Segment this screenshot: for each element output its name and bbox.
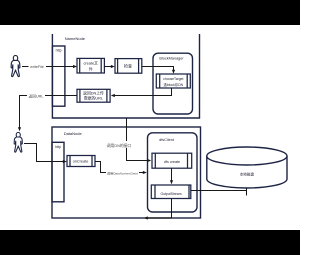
svg-text:NameNode: NameNode [65,36,86,41]
svg-text:调用DN的接口: 调用DN的接口 [107,143,132,148]
svg-text:数据的URL: 数据的URL [84,95,103,100]
svg-text:DataNode: DataNode [64,131,83,136]
svg-text:BlockManager: BlockManager [159,57,184,61]
svg-text:create文: create文 [84,61,99,66]
svg-text:http: http [56,49,62,53]
svg-text:检查: 检查 [124,63,132,69]
svg-text:本地磁盘: 本地磁盘 [240,171,255,176]
svg-text:writeFile: writeFile [30,65,44,69]
svg-text:调用DataXceiverClient: 调用DataXceiverClient [107,170,138,175]
svg-text:返回DN上传: 返回DN上传 [83,90,104,95]
svg-text:件: 件 [89,66,93,71]
svg-text:dfs create: dfs create [164,160,180,164]
svg-text:OutputStream: OutputStream [160,192,181,196]
svg-text:onCreate: onCreate [73,159,89,163]
svg-text:返回URL: 返回URL [29,94,44,99]
svg-text:选block存DN: 选block存DN [164,82,184,87]
svg-text:chooseTarget: chooseTarget [163,77,183,81]
svg-text:http: http [55,145,61,149]
svg-text:dfsClient: dfsClient [159,138,175,142]
